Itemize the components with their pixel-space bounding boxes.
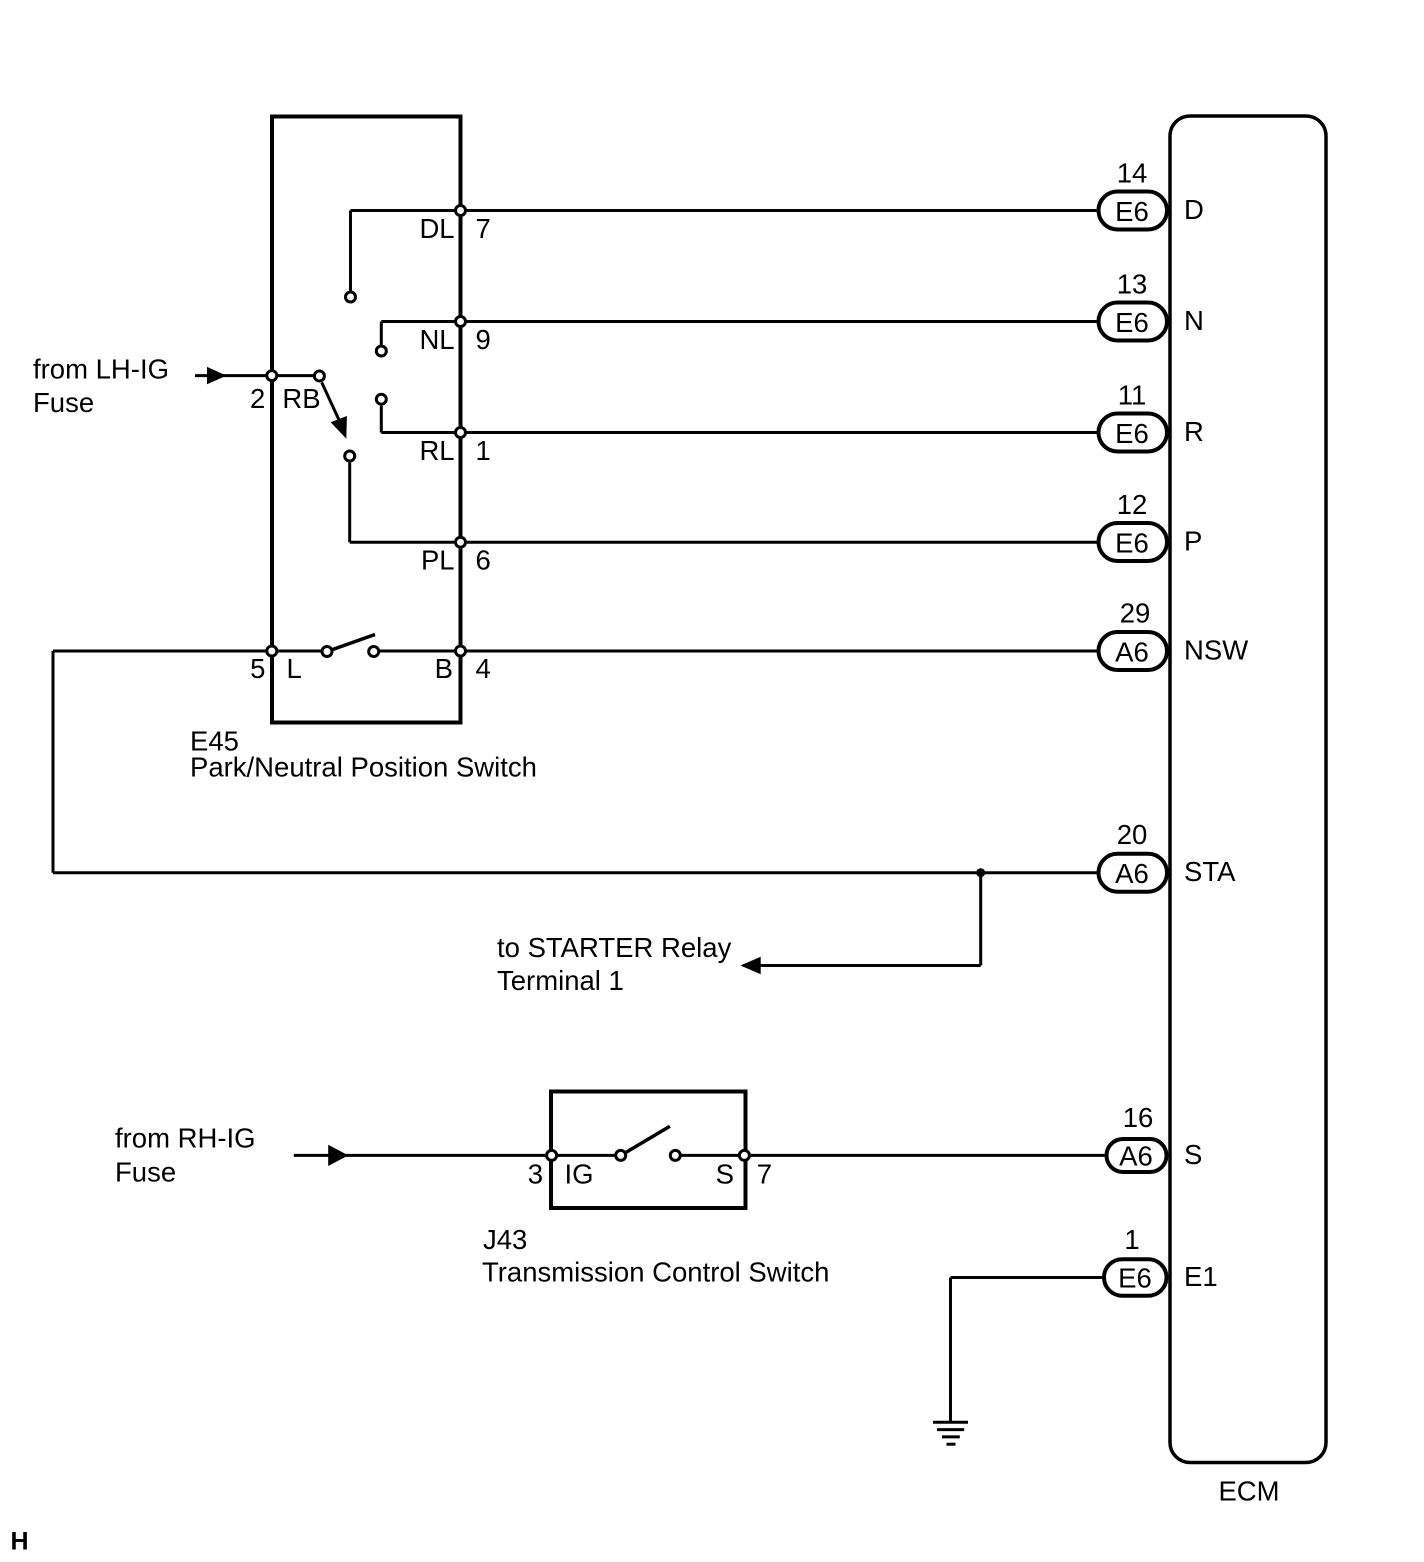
wire STA branch vertical [979,873,982,966]
svg-text:S: S [716,1159,734,1190]
node pin2 E45 [267,371,277,381]
svg-text:Fuse: Fuse [115,1157,176,1188]
contact PL [345,451,355,461]
wire from RH-IG fuse to J43 [294,1154,621,1157]
wire S row J43 to ECM [675,1154,1106,1157]
svg-text:STA: STA [1184,856,1236,887]
wire from LH-IG fuse to pin 2 [195,374,266,377]
connector A6 pin16 S [1107,1102,1203,1172]
arrowhead to starter relay [740,957,760,974]
wire pin2 to RB contact [272,374,313,377]
wire R row [461,431,1099,434]
contact RB [314,371,324,381]
wire NSW row right of contact [374,650,1098,653]
wire left vertical NSW to STA [52,651,55,873]
svg-text:5: 5 [250,653,265,684]
node pin5 E45 [267,646,277,656]
contact B [369,647,379,657]
wire DL horizontal [351,209,461,212]
connector E6 pin13 N [1099,269,1204,341]
connector E6 pin14 D [1099,158,1204,230]
connector E6 pin11 R [1099,380,1204,452]
svg-text:B: B [435,653,453,684]
switch arm RB rotor [322,382,340,421]
svg-text:RL: RL [419,435,454,466]
connector E6 pin12 P [1099,489,1203,561]
svg-text:A6: A6 [1115,858,1149,889]
contact IG [616,1150,626,1160]
svg-text:29: 29 [1120,598,1151,629]
svg-text:E6: E6 [1115,528,1149,559]
contact S J43 [670,1150,680,1160]
svg-text:NSW: NSW [1184,635,1248,666]
J43 switch body [551,1092,746,1209]
contact NL [376,346,386,356]
svg-text:E6: E6 [1115,307,1149,338]
svg-text:D: D [1184,194,1204,225]
svg-text:4: 4 [476,653,491,684]
svg-text:1: 1 [1124,1224,1139,1255]
junction STA branch [976,868,985,877]
svg-text:DL: DL [419,213,454,244]
contact RL [376,394,386,404]
connector A6 pin29 NSW [1099,598,1249,671]
svg-text:16: 16 [1123,1102,1154,1133]
connector A6 pin20 STA [1099,819,1237,892]
arrowhead from LH-IG fuse [207,367,227,384]
svg-text:to STARTER Relay: to STARTER Relay [497,932,732,963]
wire STA branch horizontal to starter relay [757,964,981,967]
svg-text:2: 2 [250,383,265,414]
svg-text:N: N [1184,305,1204,336]
svg-text:7: 7 [757,1159,772,1190]
svg-text:from LH-IG: from LH-IG [33,354,169,385]
svg-text:L: L [287,653,302,684]
wire N row [461,320,1099,323]
switch arm J43 IG-S [626,1126,670,1152]
svg-text:S: S [1184,1139,1202,1170]
svg-text:A6: A6 [1119,1140,1153,1171]
svg-text:R: R [1184,416,1204,447]
svg-text:Park/Neutral Position Switch: Park/Neutral Position Switch [190,752,537,783]
svg-text:E6: E6 [1118,1263,1152,1294]
svg-text:13: 13 [1117,269,1148,300]
svg-text:IG: IG [565,1159,594,1190]
svg-text:3: 3 [528,1159,543,1190]
wire PL vertical [348,463,351,543]
contact DL [346,292,356,302]
node pin3 J43 [547,1150,557,1160]
wire RL vertical [380,406,383,433]
svg-text:PL: PL [421,545,455,576]
wire NSW row left of contact [53,650,327,653]
svg-text:12: 12 [1117,489,1148,520]
ground [933,1422,968,1444]
wire E1 vertical to ground [949,1278,952,1423]
svg-text:NL: NL [419,324,454,355]
arrowhead from RH-IG fuse [328,1145,348,1166]
wire RL horizontal [381,431,460,434]
svg-text:RB: RB [282,383,320,414]
svg-text:ECM: ECM [1218,1476,1279,1507]
node RL pin1 [456,428,466,438]
svg-text:6: 6 [476,545,491,576]
svg-text:11: 11 [1118,380,1147,411]
svg-text:E6: E6 [1115,196,1149,227]
svg-text:Terminal 1: Terminal 1 [497,965,624,996]
contact L [322,647,332,657]
wire D row [461,209,1099,212]
wire PL horizontal [350,541,461,544]
svg-text:Fuse: Fuse [33,387,94,418]
svg-text:H: H [11,1528,29,1556]
svg-text:7: 7 [476,213,491,244]
node PL pin6 [456,537,466,547]
svg-text:P: P [1184,526,1202,557]
wire NL vertical [380,322,383,345]
wire E1 row [951,1276,1105,1279]
wire DL vertical [349,211,352,291]
node pin7 J43 [739,1150,749,1160]
node B pin4 [456,646,466,656]
svg-text:9: 9 [476,324,491,355]
svg-text:1: 1 [476,435,491,466]
wire P row [461,541,1099,544]
arrowhead RB rotor [331,416,347,439]
svg-text:from RH-IG: from RH-IG [115,1123,256,1154]
E45 switch body [272,117,461,723]
node NL pin9 [456,317,466,327]
switch arm L-B contact [333,635,375,650]
svg-text:20: 20 [1117,819,1148,850]
node DL pin7 [456,206,466,216]
svg-text:A6: A6 [1115,637,1149,668]
ECM U1 body [1170,116,1326,1463]
svg-text:J43: J43 [483,1224,527,1255]
wire NL horizontal [381,320,460,323]
svg-text:E1: E1 [1184,1261,1218,1292]
svg-text:14: 14 [1117,158,1148,189]
svg-text:Transmission Control Switch: Transmission Control Switch [482,1257,829,1288]
connector E6 pin1 E1 [1104,1224,1218,1296]
wire STA row [53,871,1098,874]
svg-text:E6: E6 [1115,418,1149,449]
